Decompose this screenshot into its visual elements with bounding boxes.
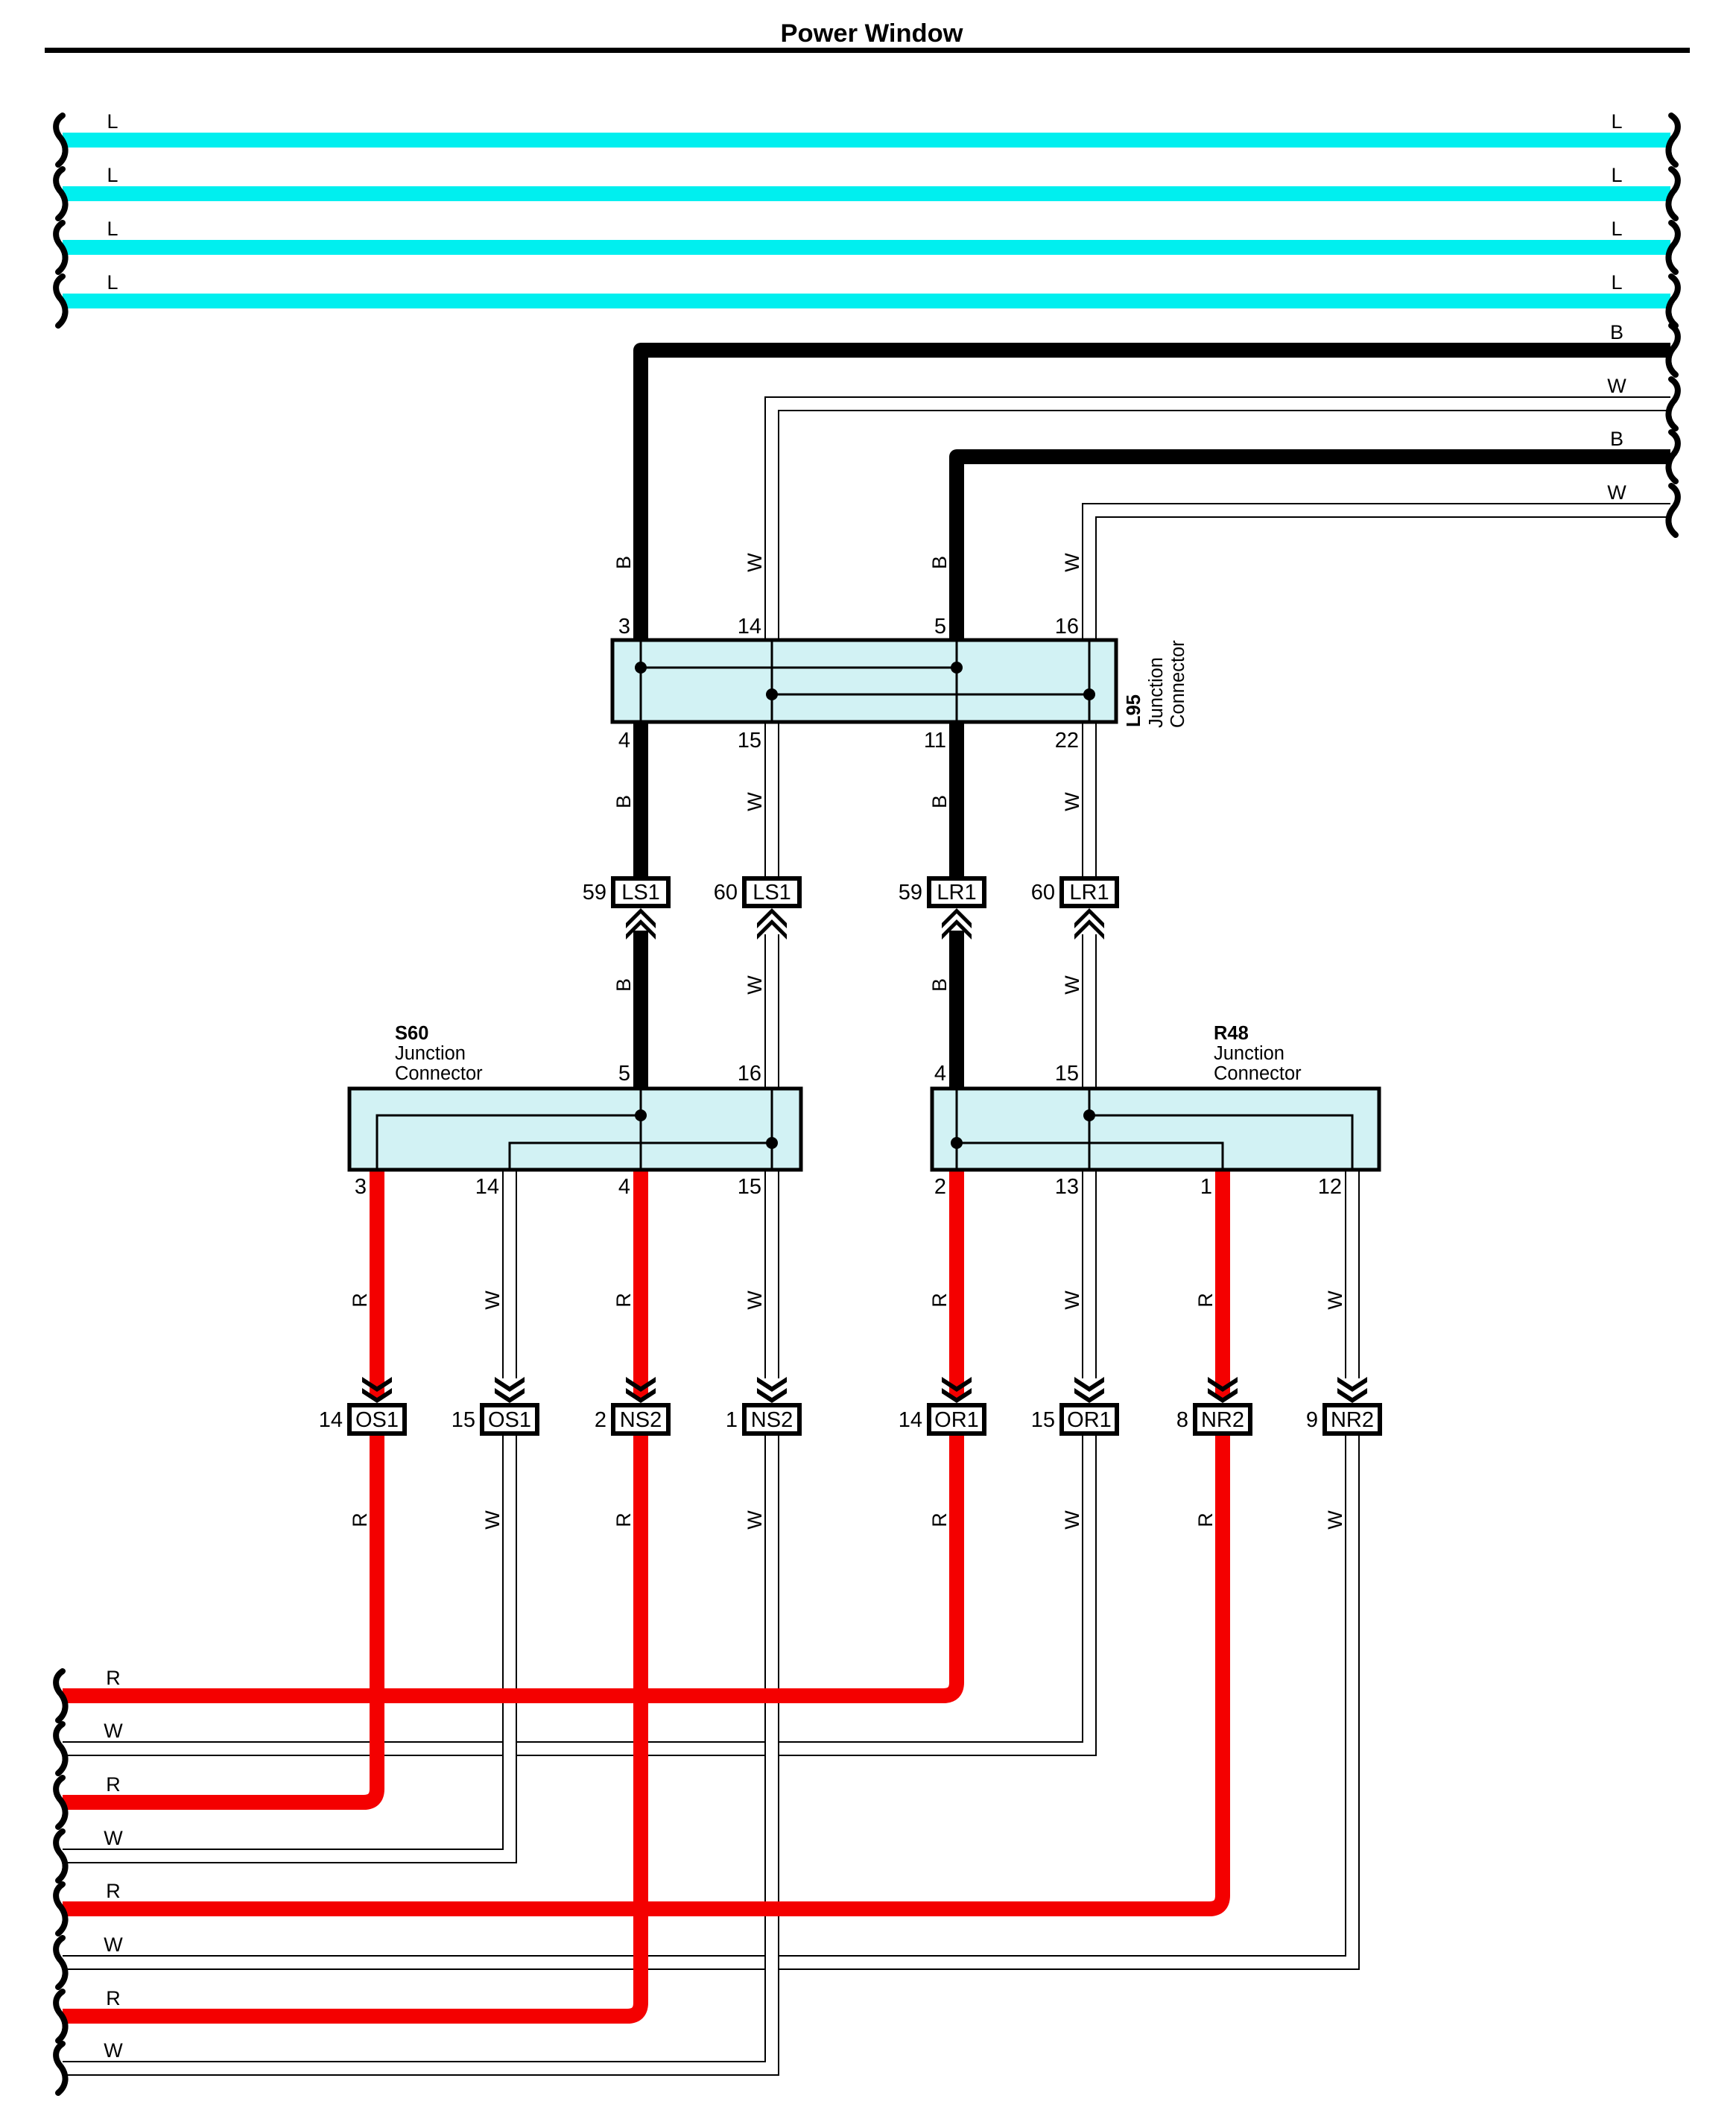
svg-text:R: R <box>1194 1293 1217 1308</box>
svg-text:L: L <box>107 218 118 240</box>
S60 internal branch to pin 14 <box>510 1143 772 1170</box>
svg-text:L: L <box>107 110 118 133</box>
svg-text:Junction: Junction <box>1146 657 1167 728</box>
svg-text:W: W <box>744 975 766 995</box>
connector NR2 box (pin 8) <box>1195 1405 1250 1434</box>
break symbol left of wire L2 <box>56 169 65 218</box>
chevron arrows pointing down into NS2 (pin 1) <box>757 1377 787 1392</box>
chevron arrows pointing down into NR2 (pin 8) <box>1208 1377 1238 1392</box>
connector OS1 box (pin 14) <box>349 1405 405 1434</box>
svg-text:11: 11 <box>924 729 946 753</box>
junction connector R48 box <box>932 1089 1379 1170</box>
connector NR2 box (pin 9) <box>1325 1405 1380 1434</box>
svg-text:OR1: OR1 <box>934 1408 979 1432</box>
connector LS1 box (pin 59) <box>613 878 668 906</box>
svg-text:5: 5 <box>618 1062 630 1086</box>
break symbol left of wire L4 <box>56 276 65 326</box>
svg-text:R: R <box>106 1880 121 1902</box>
svg-text:14: 14 <box>319 1408 343 1432</box>
svg-text:R: R <box>928 1512 951 1527</box>
svg-text:B: B <box>1610 321 1623 343</box>
chevron arrows pointing down into OS1 (pin 14) <box>362 1377 392 1392</box>
wire B from L95 pin down to connector box at x=1284 <box>949 720 964 878</box>
L95 internal bus line pins 3-4 <box>640 640 642 722</box>
wire W from junction connector down to chevron at x=1815 <box>1345 1168 1360 1378</box>
svg-text:L: L <box>1611 271 1622 294</box>
R48 internal branch to pin 1 <box>957 1143 1223 1170</box>
wire R from junction connector down to chevron at x=506 <box>370 1168 384 1398</box>
svg-text:L: L <box>1611 164 1622 186</box>
svg-text:R48: R48 <box>1214 1023 1249 1044</box>
break symbol right of wire L3 <box>1668 223 1677 272</box>
R48 junction dot pin15 bus <box>1083 1109 1095 1121</box>
chevron arrows pointing up into LS1 <box>626 908 656 928</box>
svg-text:NR2: NR2 <box>1201 1408 1244 1432</box>
svg-text:R: R <box>349 1293 371 1308</box>
wire L1 (cyan, horizontal) <box>63 133 1670 148</box>
wire W from chevron down to junction connector at x=1036 <box>764 934 779 1091</box>
svg-text:W: W <box>1061 975 1083 995</box>
svg-text:5: 5 <box>934 615 946 639</box>
svg-text:W: W <box>1607 375 1626 397</box>
S60 junction dot pin5 bus <box>635 1109 647 1121</box>
connector OS1 box (pin 15) <box>482 1405 537 1434</box>
chevron arrows pointing down into NS2 (pin 2) <box>626 1377 656 1392</box>
L95 junction dot at pin14 bus <box>766 688 778 700</box>
svg-text:4: 4 <box>934 1062 946 1086</box>
junction connector S60 box <box>349 1089 801 1170</box>
wire W2 (W) horizontal from right edge, corner down into L95 at x=1462 <box>1089 510 1670 642</box>
svg-text:LS1: LS1 <box>753 881 791 905</box>
svg-text:OS1: OS1 <box>488 1408 531 1432</box>
L95 junction dot at pin5 bus <box>951 662 963 674</box>
svg-text:12: 12 <box>1318 1175 1342 1199</box>
svg-text:L95: L95 <box>1124 694 1144 727</box>
svg-text:W: W <box>744 1290 766 1310</box>
svg-text:W: W <box>1061 792 1083 811</box>
break symbol left of bottom wire y=2491 <box>56 1831 65 1881</box>
svg-text:W: W <box>104 1933 123 1956</box>
svg-text:S60: S60 <box>395 1023 428 1044</box>
break symbol left of bottom wire y=2634 <box>56 1938 65 1987</box>
svg-text:4: 4 <box>618 729 630 753</box>
svg-text:W: W <box>481 1510 504 1530</box>
svg-text:NS2: NS2 <box>620 1408 662 1432</box>
svg-text:R: R <box>349 1512 371 1527</box>
break symbol left of bottom wire y=2776 <box>56 2044 65 2093</box>
break symbol right of wire L4 <box>1668 276 1677 326</box>
svg-text:R: R <box>106 1773 121 1796</box>
break symbol right of wire L2 <box>1668 169 1677 218</box>
svg-text:LR1: LR1 <box>1069 881 1109 905</box>
R48 internal branch to pin 12 <box>1089 1115 1352 1170</box>
connector NS2 box (pin 1) <box>744 1405 799 1434</box>
wire W from L95 pin down to connector box at x=1462 <box>1082 720 1097 878</box>
svg-text:16: 16 <box>1055 615 1079 639</box>
L95 internal link pin14 to pin16 <box>772 694 1089 696</box>
svg-text:W: W <box>481 1290 504 1310</box>
L95 junction dot at pin16 bus <box>1083 688 1095 700</box>
svg-text:W: W <box>1324 1290 1346 1310</box>
svg-text:L: L <box>107 271 118 294</box>
junction connector L95 box <box>612 640 1116 722</box>
svg-text:B: B <box>928 556 951 569</box>
wire L2 (cyan, horizontal) <box>63 186 1670 201</box>
R48 internal bus pin4-pin2 <box>956 1089 958 1170</box>
connector LS1 box (pin 60) <box>744 878 799 906</box>
break symbol left of bottom wire y=2706 <box>56 1992 65 2041</box>
svg-text:Connector: Connector <box>1168 640 1188 728</box>
chevron arrows pointing down into NR2 (pin 9) <box>1337 1377 1367 1392</box>
svg-text:L: L <box>1611 218 1622 240</box>
svg-text:W: W <box>1061 1510 1083 1530</box>
svg-text:Junction: Junction <box>395 1043 466 1064</box>
svg-text:B: B <box>612 795 635 808</box>
break symbol left of bottom wire y=2562 <box>56 1884 65 1933</box>
chevron arrows pointing down into OR1 (pin 15) <box>1074 1377 1104 1392</box>
wire R from lower connector x=860 down, left turn at y=2706, to left edge <box>63 1404 641 2016</box>
break symbol left of bottom wire y=2419 <box>56 1778 65 1827</box>
svg-text:B: B <box>612 978 635 992</box>
chevron arrows pointing up into LR1 <box>942 908 972 928</box>
wire R from lower connector x=506 down, left turn at y=2419, to left edge <box>63 1404 377 1802</box>
svg-text:15: 15 <box>1055 1062 1079 1086</box>
svg-text:13: 13 <box>1055 1175 1079 1199</box>
svg-text:R: R <box>612 1512 635 1527</box>
wire W from chevron down to junction connector at x=1462 <box>1082 934 1097 1091</box>
S60 internal bus pin5-pin4 <box>640 1089 642 1170</box>
connector NS2 box (pin 2) <box>613 1405 668 1434</box>
svg-text:W: W <box>1607 481 1626 504</box>
wire L3 (cyan, horizontal) <box>63 240 1670 255</box>
wire W from L95 pin down to connector box at x=1036 <box>764 720 779 878</box>
L95 internal link pin3 to pin5 <box>641 667 957 669</box>
wire W from lower connector x=1815 down, left turn at y=2634, to left edge <box>63 1404 1352 1963</box>
svg-text:15: 15 <box>1031 1408 1055 1432</box>
svg-text:59: 59 <box>583 881 606 905</box>
S60 internal bus pin16-pin15 <box>771 1089 773 1170</box>
svg-text:R: R <box>106 1667 121 1689</box>
svg-text:15: 15 <box>738 729 761 753</box>
svg-text:15: 15 <box>452 1408 475 1432</box>
wire L4 (cyan, horizontal) <box>63 294 1670 308</box>
svg-text:4: 4 <box>618 1175 630 1199</box>
svg-text:1: 1 <box>726 1408 738 1432</box>
svg-text:15: 15 <box>738 1175 761 1199</box>
chevron arrows pointing down into OR1 (pin 14) <box>942 1377 972 1392</box>
svg-text:W: W <box>104 1827 123 1849</box>
svg-text:L: L <box>1611 110 1622 133</box>
svg-text:60: 60 <box>714 881 738 905</box>
svg-text:B: B <box>928 795 951 808</box>
wire B from chevron down to junction connector at x=860 <box>633 931 648 1091</box>
svg-text:R: R <box>612 1293 635 1308</box>
break symbol left of wire L3 <box>56 223 65 272</box>
svg-text:W: W <box>104 2039 123 2062</box>
wire R from junction connector down to chevron at x=860 <box>633 1168 648 1398</box>
svg-text:3: 3 <box>355 1175 367 1199</box>
svg-text:14: 14 <box>738 615 761 639</box>
svg-text:W: W <box>744 1510 766 1530</box>
svg-text:B: B <box>612 556 635 569</box>
wire B from L95 pin down to connector box at x=860 <box>633 720 648 878</box>
break symbol left of bottom wire y=2347 <box>56 1724 65 1773</box>
svg-text:W: W <box>104 1720 123 1742</box>
L95 internal bus line pins 14-15 <box>771 640 773 722</box>
svg-text:R: R <box>106 1987 121 2009</box>
svg-text:Connector: Connector <box>1214 1063 1302 1084</box>
chevron arrows pointing down into OS1 (pin 15) <box>495 1377 525 1392</box>
wire W from lower connector x=1036 down, left turn at y=2776, to left edge <box>63 1404 772 2068</box>
connector LR1 box (pin 60) <box>1062 878 1117 906</box>
svg-text:2: 2 <box>595 1408 606 1432</box>
connector OR1 box (pin 14) <box>929 1405 984 1434</box>
S60 internal branch to pin 3 <box>377 1115 641 1170</box>
svg-text:9: 9 <box>1306 1408 1318 1432</box>
L95 internal bus line pins 5-11 <box>956 640 958 722</box>
wire R from junction connector down to chevron at x=1284 <box>949 1168 964 1398</box>
wire W from junction connector down to chevron at x=684 <box>502 1168 517 1378</box>
S60 junction dot pin16 bus <box>766 1137 778 1149</box>
R48 junction dot pin4 bus <box>951 1137 963 1149</box>
break symbol left of wire L1 <box>56 115 65 165</box>
chevron arrows pointing up into LR1 <box>1074 908 1104 928</box>
svg-text:16: 16 <box>738 1062 761 1086</box>
svg-text:14: 14 <box>475 1175 499 1199</box>
connector OR1 box (pin 15) <box>1062 1405 1117 1434</box>
wire W from lower connector x=1462 down, left turn at y=2347, to left edge <box>63 1404 1089 1749</box>
break symbol right of wire L1 <box>1668 115 1677 165</box>
svg-text:60: 60 <box>1031 881 1055 905</box>
svg-text:L: L <box>107 164 118 186</box>
svg-text:Connector: Connector <box>395 1063 483 1084</box>
svg-text:14: 14 <box>899 1408 922 1432</box>
wire R from lower connector x=1284 down, left turn at y=2276, to left edge <box>63 1404 957 1696</box>
svg-text:B: B <box>928 978 951 992</box>
svg-text:LR1: LR1 <box>937 881 976 905</box>
chevron arrows pointing up into LS1 <box>757 908 787 928</box>
svg-text:W: W <box>1061 553 1083 572</box>
svg-text:LS1: LS1 <box>621 881 660 905</box>
break symbol right of wire W1 <box>1668 379 1677 428</box>
svg-text:59: 59 <box>899 881 922 905</box>
svg-text:W: W <box>744 553 766 572</box>
wire R from lower connector x=1641 down, left turn at y=2562, to left edge <box>63 1404 1223 1909</box>
title rule <box>45 48 1690 53</box>
break symbol left of bottom wire y=2276 <box>56 1671 65 1720</box>
svg-text:8: 8 <box>1176 1408 1188 1432</box>
svg-text:Power Window: Power Window <box>780 19 963 48</box>
svg-text:OR1: OR1 <box>1067 1408 1112 1432</box>
svg-text:W: W <box>1061 1290 1083 1310</box>
wire B1 (B) horizontal from right edge, corner down into L95 at x=860 <box>641 350 1670 642</box>
break symbol right of wire W2 <box>1668 486 1677 535</box>
svg-text:R: R <box>928 1293 951 1308</box>
wire B from chevron down to junction connector at x=1284 <box>949 931 964 1091</box>
wire B2 (B) horizontal from right edge, corner down into L95 at x=1284 <box>957 457 1670 642</box>
svg-text:2: 2 <box>934 1175 946 1199</box>
L95 internal bus line pins 16-22 <box>1089 640 1091 722</box>
L95 junction dot at pin3 bus <box>635 662 647 674</box>
R48 internal bus pin15-pin13 <box>1089 1089 1091 1170</box>
svg-text:W: W <box>1324 1510 1346 1530</box>
wire W from junction connector down to chevron at x=1462 <box>1082 1168 1097 1378</box>
svg-text:22: 22 <box>1055 729 1079 753</box>
svg-text:NS2: NS2 <box>751 1408 793 1432</box>
wire W from junction connector down to chevron at x=1036 <box>764 1168 779 1378</box>
break symbol right of wire B2 <box>1668 432 1677 481</box>
svg-text:OS1: OS1 <box>355 1408 399 1432</box>
svg-text:Junction: Junction <box>1214 1043 1284 1064</box>
break symbol right of wire B1 <box>1668 326 1677 375</box>
svg-text:W: W <box>744 792 766 811</box>
svg-text:3: 3 <box>618 615 630 639</box>
svg-text:NR2: NR2 <box>1331 1408 1374 1432</box>
svg-text:1: 1 <box>1200 1175 1212 1199</box>
wire W1 (W) horizontal from right edge, corner down into L95 at x=1036 <box>772 404 1670 642</box>
svg-text:R: R <box>1194 1512 1217 1527</box>
svg-text:B: B <box>1610 428 1623 450</box>
wire R from junction connector down to chevron at x=1641 <box>1215 1168 1230 1398</box>
wire W from lower connector x=684 down, left turn at y=2491, to left edge <box>63 1404 510 1856</box>
connector LR1 box (pin 59) <box>929 878 984 906</box>
